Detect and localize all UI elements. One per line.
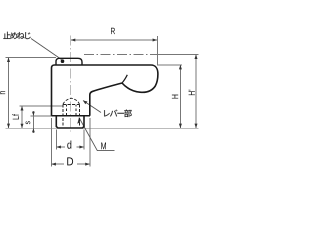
node h top extension line (boss top level) <box>5 56 56 58</box>
label lever part <box>104 110 132 118</box>
label R <box>111 28 115 34</box>
node Lf top extension line <box>20 105 64 107</box>
label M <box>101 143 106 150</box>
label D <box>67 157 73 165</box>
label s <box>26 121 31 124</box>
node hub centerline vertical dash-dot <box>70 36 72 132</box>
boss set screw pad <box>56 58 82 65</box>
label h <box>0 91 5 94</box>
set screw dot <box>61 59 65 63</box>
dimension R <box>71 39 158 42</box>
label Lf <box>12 114 19 119</box>
lever underside <box>90 83 122 116</box>
grip neck spur <box>122 75 127 83</box>
body hub outline <box>52 65 152 116</box>
node H top extension line <box>158 64 182 66</box>
thread hidden cone <box>63 98 80 104</box>
dimension s <box>32 111 35 133</box>
thread hidden hole lines <box>63 104 80 127</box>
dimension D extension lines <box>50 118 52 167</box>
label H <box>172 95 178 99</box>
node s top extension line (body bottom level) <box>31 115 53 117</box>
node R right extension line <box>156 36 158 66</box>
label set screw <box>3 32 30 39</box>
node lever centerline horizontal dash-dot <box>84 53 172 55</box>
leader lever part <box>83 101 101 113</box>
leader set screw <box>31 39 62 60</box>
leader M with underline <box>79 118 115 151</box>
dimension Lf <box>21 106 24 128</box>
dimension h <box>7 57 10 128</box>
dimension D <box>51 163 90 166</box>
dimension d extension lines <box>55 130 57 150</box>
label d <box>67 140 71 148</box>
node H prime top extension line <box>157 53 198 55</box>
dimension H prime <box>195 54 198 128</box>
label H prime <box>189 90 195 95</box>
lever grip outline <box>122 65 158 92</box>
dimension H <box>179 65 182 128</box>
body bottom edge <box>52 115 90 117</box>
nut outline <box>56 116 84 128</box>
wire baseline extension line bottom <box>6 127 199 129</box>
dimension d <box>56 146 84 149</box>
